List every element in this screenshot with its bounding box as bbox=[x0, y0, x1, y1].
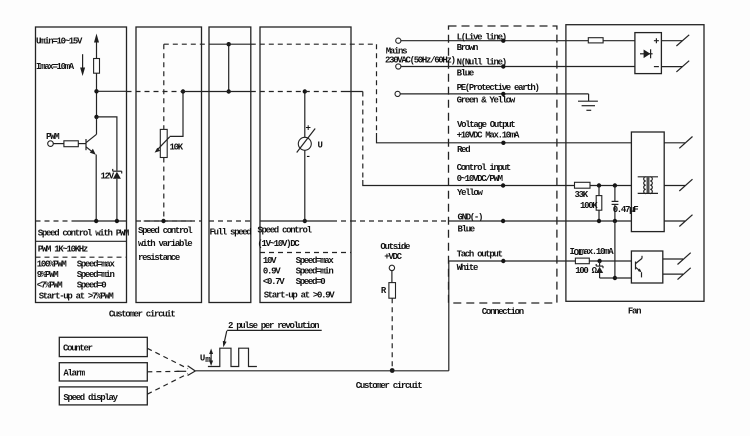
customer circuit box 1 (PWM speed control) bbox=[36, 27, 127, 303]
box3 rail (dashed) bbox=[209, 220, 251, 222]
node cap/GND bbox=[613, 219, 617, 223]
riser to tach output row bbox=[448, 261, 450, 371]
control wire dashed descent bbox=[362, 92, 364, 181]
node N bbox=[501, 64, 505, 68]
svg-text:Speed=0: Speed=0 bbox=[296, 277, 326, 287]
svg-text:Speed control: Speed control bbox=[138, 226, 193, 236]
svg-text:Start-up at >0.9V: Start-up at >0.9V bbox=[264, 291, 336, 301]
svg-text:PWM 1K~10KHz: PWM 1K~10KHz bbox=[38, 244, 88, 254]
opto output wire 1 bbox=[663, 258, 683, 260]
box2 rail (dashed full) bbox=[136, 220, 202, 222]
customer circuit box 2 (variable resistance) bbox=[136, 27, 202, 303]
node A (junction to control wire) bbox=[94, 89, 98, 93]
Alarm box bbox=[59, 363, 147, 381]
wire terminal to resistor R bbox=[391, 271, 393, 283]
box2 rail junction bbox=[161, 219, 165, 223]
GND wire dashed from box4 to connection box bbox=[351, 220, 449, 222]
box3 full-speed strap wire bbox=[228, 44, 230, 91]
rail junction (emitter) bbox=[94, 219, 98, 223]
svg-text:Speed control with PWM: Speed control with PWM bbox=[38, 229, 129, 239]
box2 dashed lead to potentiometer top bbox=[163, 44, 165, 129]
svg-text:U: U bbox=[200, 353, 205, 363]
node control/cap bbox=[613, 183, 617, 187]
dashed leader from Alarm bbox=[147, 370, 183, 373]
svg-text:Speed=0: Speed=0 bbox=[77, 281, 107, 291]
voltage source U (variable) bbox=[298, 137, 311, 150]
node L bbox=[501, 39, 505, 43]
svg-text:White: White bbox=[457, 263, 478, 273]
node voltage output bbox=[501, 141, 505, 145]
resistor 33K on control input bbox=[575, 182, 591, 188]
terminal PE bbox=[395, 91, 400, 96]
svg-text:Control input: Control input bbox=[457, 163, 511, 173]
box2 rail (solid center) bbox=[144, 220, 192, 222]
Fan box bbox=[566, 25, 704, 302]
svg-text:Speed=max: Speed=max bbox=[296, 256, 335, 266]
svg-text:Start-up at >7%PWM: Start-up at >7%PWM bbox=[39, 292, 114, 302]
svg-text:Blue: Blue bbox=[458, 224, 475, 234]
svg-text:Connection: Connection bbox=[482, 307, 524, 317]
box1 current arrow down bbox=[82, 54, 84, 69]
svg-text:Full speed: Full speed bbox=[210, 227, 252, 237]
potentiometer wiper arrow bbox=[157, 137, 170, 151]
svg-text:Alarm: Alarm bbox=[63, 369, 85, 379]
break slash bbox=[679, 215, 692, 227]
svg-text:10K: 10K bbox=[170, 142, 184, 152]
svg-text:<7%PWM: <7%PWM bbox=[37, 281, 63, 291]
dashed leader from Speed display bbox=[147, 374, 188, 395]
customer circuit box 4 (voltage control) bbox=[260, 27, 351, 303]
box4 rail junction bbox=[303, 219, 307, 223]
svg-text:Speed=max: Speed=max bbox=[77, 260, 116, 270]
dash before arrowhead bbox=[177, 370, 187, 372]
rectifier + mark bbox=[654, 38, 659, 43]
box4 rail (solid+dashed) bbox=[260, 220, 332, 222]
control wire (wire2): dashed box1 to box2 node bbox=[127, 91, 184, 93]
motor box output wire 3 bbox=[664, 220, 685, 222]
svg-text:+: + bbox=[306, 124, 311, 134]
Connection box (dashed) bbox=[449, 26, 557, 303]
rectifier U1 box bbox=[635, 33, 662, 74]
rectifier output wire + bbox=[661, 40, 682, 42]
transformer symbol bbox=[638, 177, 658, 194]
+10V wire solid across box3 bbox=[209, 43, 251, 45]
box4 dashed separator bbox=[260, 252, 351, 254]
box1 ground rail (solid) bbox=[73, 220, 127, 222]
svg-text:Fan: Fan bbox=[628, 307, 641, 317]
svg-text:9%PWM: 9%PWM bbox=[37, 270, 58, 280]
tach pulse waveform bbox=[208, 348, 257, 366]
amplitude double arrow bbox=[210, 352, 212, 364]
wire zener to rail bbox=[116, 179, 118, 221]
wire return to opto box bbox=[615, 277, 632, 279]
svg-text:Outside: Outside bbox=[380, 242, 410, 252]
control wire solid to corner bbox=[345, 91, 363, 93]
control wire solid box2 node to box3 bbox=[183, 91, 251, 93]
resistor 100K bbox=[598, 186, 600, 196]
wire Q1 collector bbox=[96, 117, 98, 134]
svg-text:Speed=min: Speed=min bbox=[296, 267, 334, 277]
zener diode (tach clamp) bbox=[599, 261, 601, 266]
svg-text:0~10VDC/PWM: 0~10VDC/PWM bbox=[457, 174, 503, 184]
voltage output wire through connection box bbox=[449, 142, 632, 144]
svg-text:Imax=10mA: Imax=10mA bbox=[36, 62, 75, 72]
motor drive box bbox=[631, 132, 664, 232]
Speed display box bbox=[59, 387, 147, 405]
box1 ground rail (left dashed) bbox=[36, 220, 74, 222]
wire resistor to node A bbox=[96, 73, 98, 117]
wire PE line bbox=[400, 93, 588, 95]
svg-text:R: R bbox=[381, 286, 387, 296]
dashed leader from Counter bbox=[147, 348, 188, 368]
svg-text:U: U bbox=[318, 140, 323, 150]
svg-text:Speed=min: Speed=min bbox=[77, 270, 115, 280]
tach output wire bbox=[449, 260, 576, 262]
box4 wire control node to source bbox=[304, 92, 306, 138]
opto box (tach transistor) bbox=[631, 251, 662, 283]
break slash bbox=[676, 61, 689, 72]
svg-text:Green & Yellow: Green & Yellow bbox=[457, 96, 516, 106]
svg-text:+VDC: +VDC bbox=[384, 252, 402, 262]
svg-text:Counter: Counter bbox=[63, 344, 93, 354]
box1 supply arrow up bbox=[96, 41, 98, 59]
node control/100K bbox=[597, 183, 601, 187]
wire terminal to base resistor bbox=[53, 143, 64, 145]
resistor 100 ohm on tach line bbox=[575, 258, 589, 264]
rectifier - mark bbox=[654, 66, 659, 68]
rectifier output wire - bbox=[661, 66, 682, 68]
wire base resistor to transistor Q1 bbox=[78, 143, 86, 145]
node R / tach bus bbox=[390, 368, 395, 373]
node opto return bbox=[613, 276, 617, 280]
resistor R1 (supply dropper) bbox=[94, 59, 100, 74]
svg-text:max.10mA: max.10mA bbox=[580, 247, 615, 257]
+10V wire dashed box3 to corner bbox=[251, 43, 377, 45]
PWM input terminal bbox=[48, 141, 54, 147]
+10V wire dashed descent bbox=[376, 44, 378, 133]
svg-text:with variable: with variable bbox=[138, 239, 192, 249]
wire Q1 emitter to rail bbox=[95, 155, 97, 222]
GND wire through connection box bbox=[449, 220, 632, 222]
vertical GND to opto return bbox=[614, 221, 616, 278]
svg-text:PWM: PWM bbox=[46, 132, 59, 142]
potentiometer 10K body bbox=[160, 129, 167, 157]
break slash bbox=[676, 35, 689, 46]
leader arrow to waveform bbox=[224, 331, 227, 344]
converging arrowhead bbox=[188, 366, 196, 376]
wire 100ohm to opto bbox=[589, 260, 631, 262]
terminal N bbox=[396, 64, 401, 69]
box4 node on control wire bbox=[303, 89, 307, 93]
rectifier diode symbol bbox=[640, 53, 653, 55]
wire 33K to motor box bbox=[590, 185, 631, 187]
node 100K/GND bbox=[597, 219, 601, 223]
svg-text:L(Live line): L(Live line) bbox=[457, 33, 506, 43]
customer circuit box 3 (full speed) bbox=[209, 27, 251, 303]
motor box output wire 2 bbox=[664, 185, 685, 187]
box3 node on control wire bbox=[227, 89, 231, 93]
motor box output wire 1 bbox=[664, 142, 685, 144]
svg-text:Red: Red bbox=[457, 145, 470, 155]
opto output wire 2 bbox=[663, 273, 683, 275]
wire N line bbox=[401, 66, 635, 68]
wire node B to zener branch bbox=[97, 117, 117, 171]
base resistor bbox=[64, 141, 78, 147]
svg-text:<0.7V: <0.7V bbox=[263, 277, 285, 287]
outside VDC terminal bbox=[389, 265, 394, 270]
svg-text:33K: 33K bbox=[575, 190, 589, 200]
svg-text:Customer circuit: Customer circuit bbox=[356, 381, 423, 391]
ground symbol bbox=[588, 94, 590, 101]
phototransistor Q2 bbox=[635, 262, 637, 270]
capacitor 0.47uF bbox=[614, 186, 616, 202]
break slash bbox=[678, 268, 691, 280]
tach bus wire (customer circuit) bbox=[196, 370, 449, 372]
svg-text:Blue: Blue bbox=[457, 69, 474, 79]
box1 separator line bbox=[36, 240, 127, 242]
terminal L bbox=[396, 38, 401, 43]
resistor R (pull-up) bbox=[389, 283, 396, 299]
svg-text:12V: 12V bbox=[101, 172, 115, 182]
svg-text:-: - bbox=[306, 152, 310, 162]
box3 node on +10V wire bbox=[227, 42, 231, 46]
control input wire through connection box bbox=[449, 185, 575, 187]
svg-text:2 pulse per revolution: 2 pulse per revolution bbox=[228, 321, 319, 331]
svg-text:Tach output: Tach output bbox=[457, 250, 503, 260]
svg-text:PE(Protective earth): PE(Protective earth) bbox=[457, 83, 539, 93]
wire L line bbox=[401, 40, 635, 42]
Counter box bbox=[59, 337, 147, 356]
svg-text:Voltage Output: Voltage Output bbox=[457, 120, 515, 130]
svg-text:10V: 10V bbox=[263, 256, 277, 266]
node PE bbox=[501, 92, 505, 96]
svg-text:100 Ω: 100 Ω bbox=[575, 266, 597, 276]
svg-text:Umin=10~15V: Umin=10~15V bbox=[36, 36, 83, 46]
node control input bbox=[501, 183, 505, 187]
node GND bbox=[501, 219, 505, 223]
break slash bbox=[678, 253, 691, 265]
node tach/zener bbox=[597, 259, 601, 263]
node tach bbox=[501, 259, 505, 263]
wire node A to box edge bbox=[97, 90, 127, 92]
fuse on L line bbox=[588, 38, 603, 43]
break slash bbox=[679, 137, 692, 149]
svg-text:100%PWM: 100%PWM bbox=[37, 260, 67, 270]
svg-text:(1V~10V)DC: (1V~10V)DC bbox=[257, 239, 300, 249]
svg-text:Speed control: Speed control bbox=[257, 226, 312, 236]
svg-text:+10VDC Max.10mA: +10VDC Max.10mA bbox=[457, 131, 520, 141]
wire wiper to control node bbox=[170, 92, 183, 137]
svg-text:0.47μF: 0.47μF bbox=[613, 205, 639, 215]
dashed wire R to tach bus bbox=[391, 298, 393, 370]
svg-text:Customer circuit: Customer circuit bbox=[109, 310, 176, 320]
box2 dashed lead pot bottom to rail bbox=[163, 158, 165, 222]
svg-text:Speed display: Speed display bbox=[63, 393, 118, 403]
svg-text:resistance: resistance bbox=[138, 253, 180, 263]
+10V wire corner into voltage output row bbox=[377, 133, 449, 143]
wire zener return to GND branch bbox=[600, 277, 615, 279]
svg-text:Yellow: Yellow bbox=[457, 188, 484, 198]
rail junction (zener) bbox=[115, 219, 119, 223]
control wire corner into control input row bbox=[363, 180, 449, 186]
node B (collector node) bbox=[94, 115, 98, 119]
transistor Q1 (NPN) bbox=[85, 139, 87, 150]
svg-text:N(Null line): N(Null line) bbox=[457, 57, 506, 67]
+10V wire (wire1): dashed from pot corner to box3 bbox=[164, 43, 209, 45]
wire source to rail bbox=[304, 150, 306, 221]
svg-text:Brown: Brown bbox=[457, 43, 478, 53]
svg-text:230VAC(50Hz/60Hz): 230VAC(50Hz/60Hz) bbox=[385, 56, 455, 66]
break slash bbox=[679, 179, 692, 191]
control wire dashed box3 to box4 bbox=[251, 91, 345, 93]
svg-text:0.9V: 0.9V bbox=[263, 267, 281, 277]
svg-text:100K: 100K bbox=[580, 201, 598, 211]
box1 dashed separator bbox=[36, 256, 127, 258]
node (box2 wiper to control wire) bbox=[181, 89, 185, 93]
